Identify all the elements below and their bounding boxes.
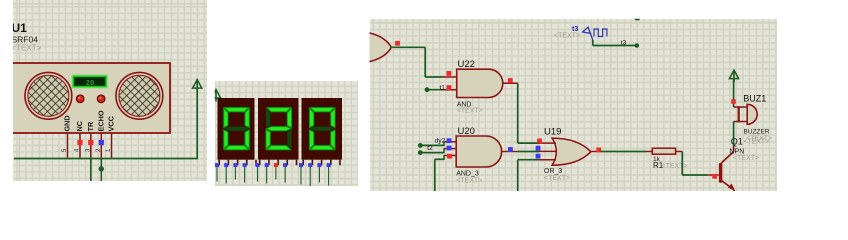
svg-text:<TEXT>: <TEXT> bbox=[544, 175, 570, 182]
svg-text:TR: TR bbox=[86, 121, 95, 131]
svg-text:<TEXT>: <TEXT> bbox=[12, 44, 42, 53]
svg-text:t1: t1 bbox=[440, 84, 446, 91]
svg-text:OR_3: OR_3 bbox=[544, 168, 562, 175]
svg-text:t2: t2 bbox=[427, 145, 433, 152]
svg-text:U1: U1 bbox=[12, 21, 28, 35]
svg-text:VCC: VCC bbox=[107, 115, 116, 131]
svg-text:U19: U19 bbox=[544, 126, 561, 137]
svg-text:BUZZER: BUZZER bbox=[744, 128, 770, 135]
svg-text:NC: NC bbox=[75, 120, 84, 131]
svg-text:20: 20 bbox=[86, 80, 95, 88]
svg-text:Q1: Q1 bbox=[731, 136, 743, 146]
svg-text:GND: GND bbox=[63, 115, 72, 131]
svg-text:<TEXT>: <TEXT> bbox=[456, 178, 482, 185]
svg-text:U22: U22 bbox=[458, 59, 475, 70]
svg-text:<TEXT>: <TEXT> bbox=[554, 33, 580, 40]
svg-text:t3: t3 bbox=[621, 40, 627, 47]
svg-text:<TEXT>: <TEXT> bbox=[662, 163, 688, 170]
svg-text:BUZ1: BUZ1 bbox=[743, 94, 766, 104]
svg-text:U20: U20 bbox=[458, 126, 475, 137]
svg-text:<TEXT>: <TEXT> bbox=[746, 135, 772, 142]
svg-text:<TEXT>: <TEXT> bbox=[457, 107, 483, 114]
svg-text:<TEXT>: <TEXT> bbox=[733, 155, 759, 162]
svg-text:AND_3: AND_3 bbox=[456, 171, 479, 178]
svg-text:ECHO: ECHO bbox=[97, 110, 106, 131]
